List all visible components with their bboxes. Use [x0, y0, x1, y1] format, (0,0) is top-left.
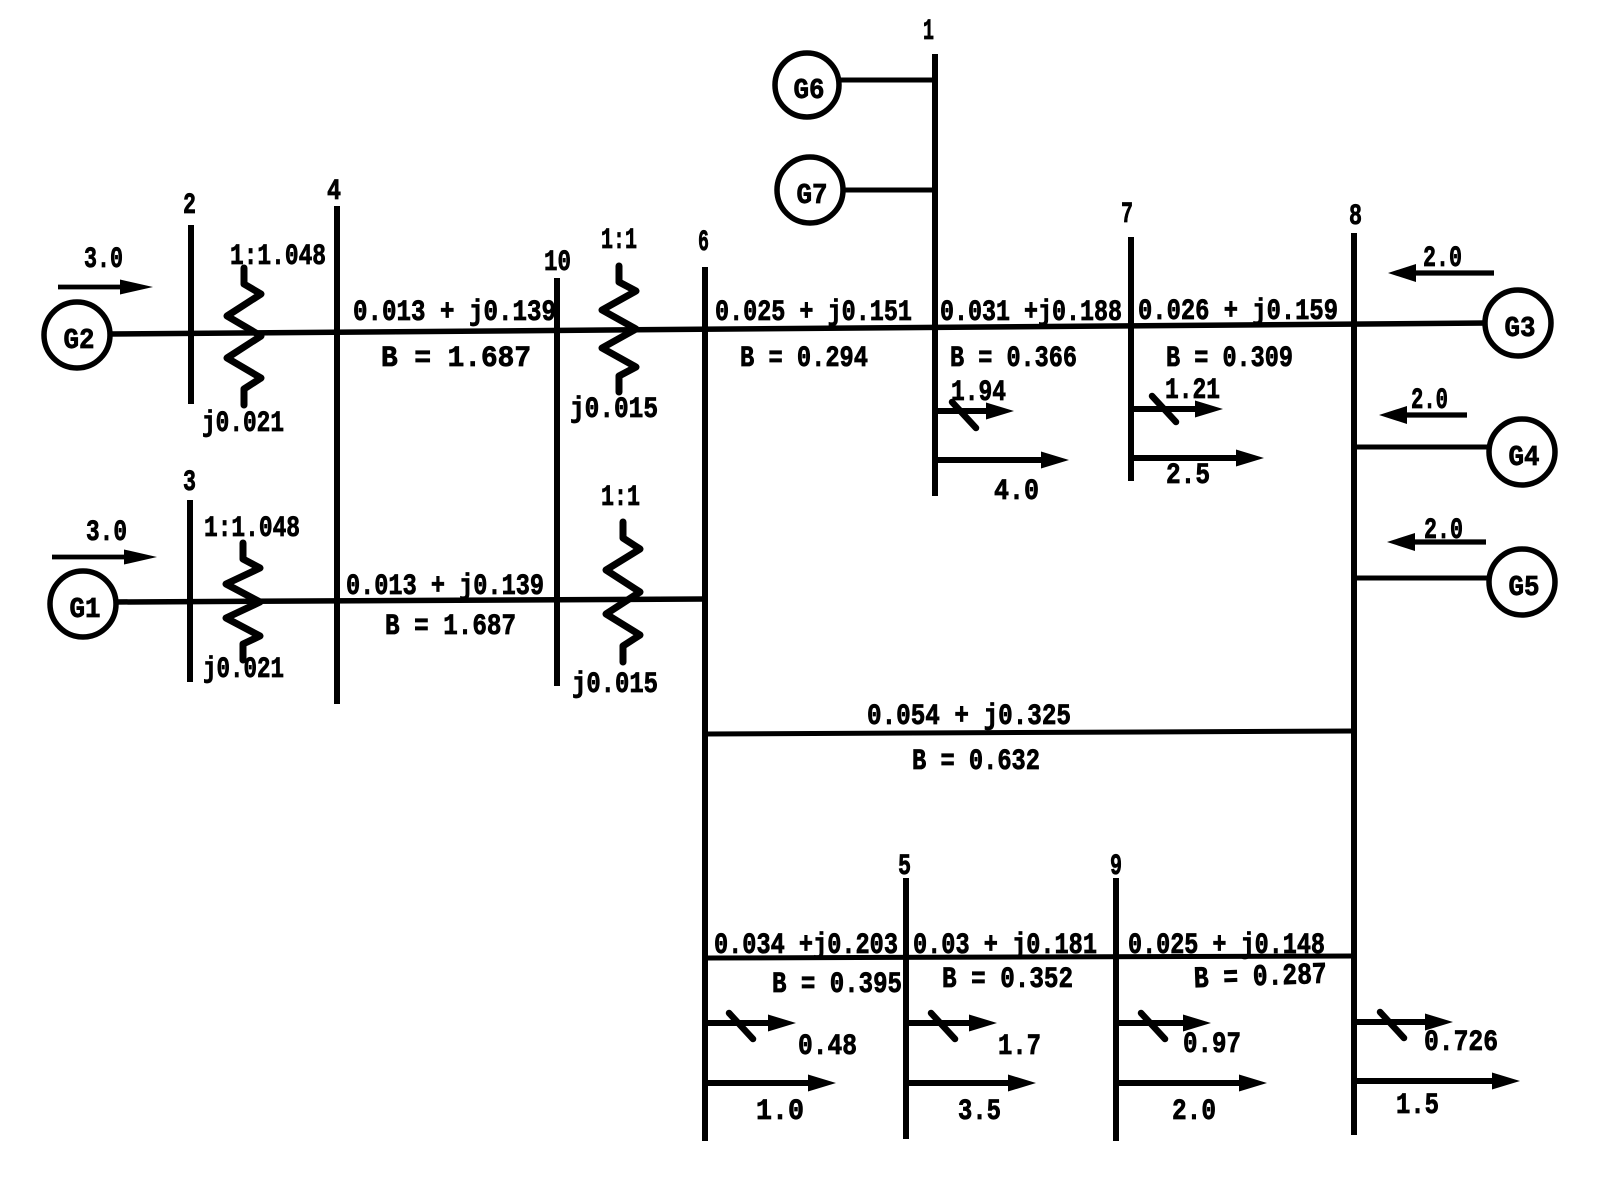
svg-text:B = 1.687: B = 1.687	[385, 610, 516, 644]
svg-text:2.5: 2.5	[1166, 459, 1210, 493]
bus 5 load 1.7 (slashed arrow)	[906, 1020, 982, 1026]
bus 7 load 1.21 (slashed arrow)	[1131, 406, 1208, 412]
bus 8	[1351, 233, 1357, 1135]
bus 1 load 1.94 (slashed arrow)	[935, 408, 999, 414]
svg-text:j0.021: j0.021	[202, 407, 284, 441]
svg-text:1:1: 1:1	[601, 224, 637, 258]
svg-text:0.726: 0.726	[1424, 1026, 1498, 1060]
svg-text:1:1: 1:1	[601, 481, 640, 515]
wire bottom: bus 6 to bus 8 through buses 5,9	[705, 956, 1354, 958]
svg-text:3.5: 3.5	[958, 1095, 1001, 1129]
svg-text:0.054 + j0.325: 0.054 + j0.325	[867, 700, 1071, 734]
bus 1 load 4.0	[935, 457, 1054, 463]
bus 6	[702, 267, 708, 1141]
bus 6 load 1.0	[705, 1080, 821, 1086]
svg-text:3.0: 3.0	[86, 516, 127, 550]
svg-text:1.7: 1.7	[998, 1030, 1041, 1064]
svg-text:G5: G5	[1509, 571, 1540, 604]
svg-text:B = 0.366: B = 0.366	[950, 342, 1077, 376]
svg-text:0.48: 0.48	[798, 1030, 857, 1064]
bus 10	[554, 278, 560, 686]
bus 7 load 2.5	[1131, 455, 1249, 461]
svg-text:3: 3	[183, 466, 196, 500]
svg-text:1.94: 1.94	[951, 376, 1006, 410]
wire G7 to bus 1	[842, 188, 935, 193]
svg-text:4.0: 4.0	[994, 475, 1039, 509]
svg-text:B = 0.632: B = 0.632	[912, 745, 1040, 779]
bus 8 load 1.5	[1353, 1078, 1505, 1084]
svg-text:0.013 + j0.139: 0.013 + j0.139	[346, 570, 544, 604]
svg-text:j0.015: j0.015	[572, 668, 658, 702]
generator G3	[1485, 290, 1551, 356]
wire main top: G2 to G3 through buses 2,4,10,6,1,7,8	[110, 323, 1487, 334]
svg-text:j0.015: j0.015	[570, 393, 658, 427]
svg-text:B = 0.287: B = 0.287	[1193, 959, 1327, 998]
generator G6	[775, 53, 839, 117]
wire line 6-8	[705, 731, 1354, 734]
svg-text:8: 8	[1349, 200, 1362, 234]
bus 1	[932, 54, 938, 496]
svg-text:9: 9	[1110, 850, 1122, 884]
generator G1	[50, 571, 116, 637]
svg-text:2: 2	[183, 189, 196, 223]
bus 9 load 0.97 (slashed arrow)	[1116, 1020, 1196, 1026]
svg-text:1.0: 1.0	[756, 1095, 804, 1129]
generator G4	[1489, 419, 1555, 485]
svg-text:1.5: 1.5	[1396, 1089, 1439, 1123]
svg-text:j0.021: j0.021	[203, 653, 284, 687]
svg-text:G1: G1	[70, 593, 101, 626]
bus 2	[188, 225, 194, 404]
svg-text:2.0: 2.0	[1172, 1095, 1216, 1129]
bus 6 load 0.48 (slashed arrow)	[705, 1020, 781, 1026]
bus 8 load 0.726 (slashed arrow)	[1353, 1019, 1438, 1025]
svg-text:G2: G2	[64, 324, 95, 357]
svg-text:B = 0.294: B = 0.294	[740, 342, 868, 376]
svg-text:6: 6	[698, 226, 709, 260]
generator G7	[777, 157, 843, 223]
svg-text:0.031 +j0.188: 0.031 +j0.188	[940, 296, 1122, 330]
svg-text:B = 1.687: B = 1.687	[381, 342, 531, 376]
svg-text:0.034 +j0.203: 0.034 +j0.203	[714, 929, 898, 963]
svg-text:0.97: 0.97	[1183, 1028, 1241, 1062]
generator G5	[1489, 549, 1555, 615]
transformer 2-4 ratio 1:1.048 j0.021	[227, 268, 261, 405]
svg-text:1:1.048: 1:1.048	[230, 240, 326, 274]
bus 5 load 3.5	[906, 1080, 1021, 1086]
wire lower left: G1 to bus 6 through buses 3,4,10	[115, 599, 705, 602]
svg-text:10: 10	[544, 246, 571, 280]
svg-text:0.025 + j0.151: 0.025 + j0.151	[715, 296, 912, 330]
svg-text:3.0: 3.0	[84, 243, 123, 277]
svg-text:G4: G4	[1509, 441, 1540, 474]
svg-text:B = 0.352: B = 0.352	[942, 963, 1073, 997]
svg-text:4: 4	[327, 175, 341, 209]
transformer 10-6 lower ratio 1:1 j0.015	[606, 522, 640, 662]
bus 3	[187, 500, 193, 682]
bus 4	[334, 206, 340, 704]
svg-text:G7: G7	[797, 179, 828, 212]
svg-text:0.026 + j0.159: 0.026 + j0.159	[1138, 295, 1338, 329]
svg-text:0.025 + j0.148: 0.025 + j0.148	[1128, 929, 1325, 963]
svg-text:1.21: 1.21	[1165, 374, 1220, 408]
bus 9 load 2.0	[1116, 1080, 1252, 1086]
svg-text:G6: G6	[794, 74, 825, 107]
svg-text:1: 1	[923, 15, 934, 49]
svg-text:0.03 + j0.181: 0.03 + j0.181	[913, 929, 1097, 963]
svg-text:G3: G3	[1505, 312, 1536, 345]
generator G2	[44, 302, 110, 368]
svg-text:1:1.048: 1:1.048	[204, 512, 300, 546]
svg-text:7: 7	[1121, 198, 1133, 232]
svg-text:B = 0.309: B = 0.309	[1166, 342, 1293, 376]
bus 5	[903, 878, 909, 1139]
svg-text:5: 5	[898, 850, 911, 884]
bus 7	[1128, 237, 1134, 481]
svg-text:B = 0.395: B = 0.395	[772, 968, 902, 1002]
bus 9	[1113, 878, 1119, 1141]
wire G6 to bus 1	[838, 78, 935, 83]
transformer 10-6 top ratio 1:1 j0.015	[602, 266, 636, 392]
transformer 3-4 ratio 1:1.048 j0.021	[226, 543, 260, 660]
wire G4 to bus 8	[1355, 445, 1490, 450]
svg-text:0.013 + j0.139: 0.013 + j0.139	[353, 296, 556, 330]
wire G5 to bus 8	[1355, 576, 1490, 581]
